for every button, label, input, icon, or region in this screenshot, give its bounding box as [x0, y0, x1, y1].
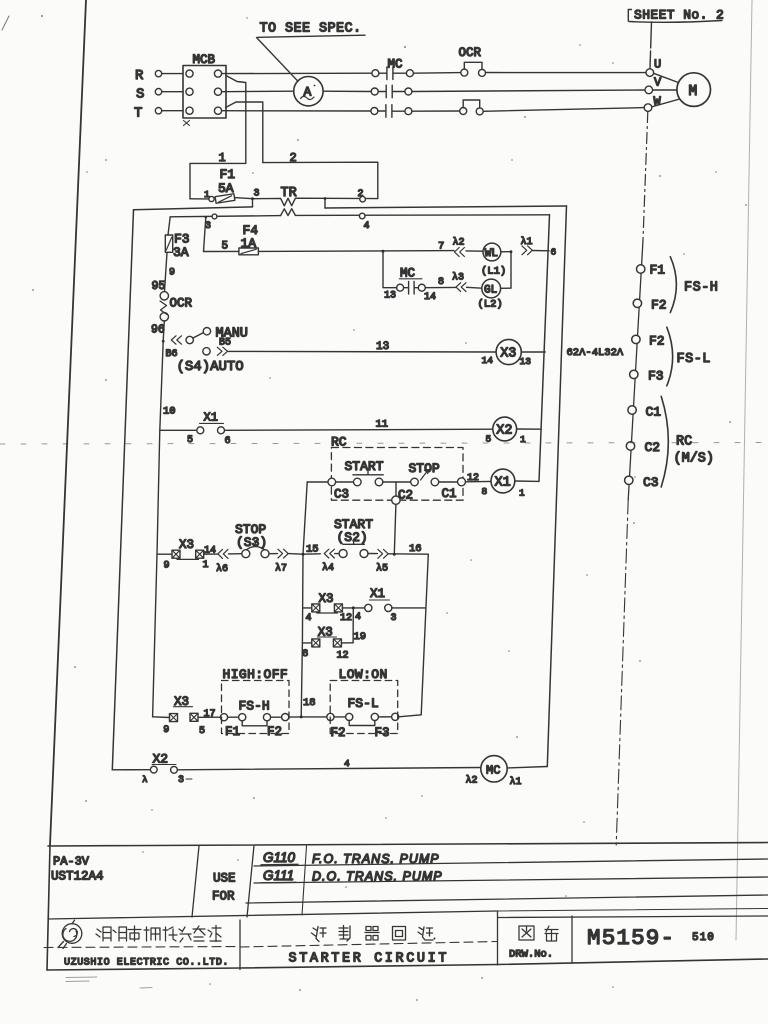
svg-text:F1: F1 [225, 725, 240, 739]
svg-text:λ6: λ6 [216, 563, 228, 575]
svg-text:X1: X1 [495, 476, 511, 491]
contactor MC aux contact 13 14 [384, 267, 436, 304]
wire riser row1 to subrow2 [301, 554, 303, 717]
box LOW:ON dashed [330, 667, 398, 734]
svg-text:C1: C1 [442, 487, 457, 501]
node remote control RC group brace [661, 396, 714, 487]
node period after kanji [434, 938, 436, 940]
text D.O. TRANS. PUMP [312, 870, 443, 884]
node terminal C2 RC junction [392, 482, 413, 504]
svg-text:X3: X3 [179, 538, 194, 552]
svg-text:14: 14 [424, 292, 436, 303]
title block dashed mid rules [44, 942, 497, 948]
svg-text:19: 19 [354, 631, 367, 643]
transformer TR [253, 186, 378, 216]
node float switch FS-H group brace [670, 257, 718, 313]
svg-text:T: T [134, 106, 142, 122]
svg-text:A: A [304, 85, 312, 100]
svg-text:C3: C3 [643, 475, 659, 490]
svg-text:X1: X1 [204, 411, 218, 425]
junction dots [205, 197, 513, 718]
title block dividers upper [48, 846, 768, 970]
text USE FOR [212, 872, 236, 904]
svg-text:5: 5 [222, 241, 229, 253]
wire transformer secondary line [170, 215, 549, 217]
svg-text:15: 15 [306, 544, 319, 556]
motor M [677, 73, 711, 107]
svg-text:λ: λ [142, 774, 148, 785]
svg-text:510: 510 [692, 932, 715, 944]
wire row1 right to corner 16 [389, 543, 429, 555]
node float switch FS-L group brace [667, 327, 711, 386]
fuse F3 3A [165, 217, 189, 260]
svg-text:(S4)AUTO: (S4)AUTO [177, 359, 244, 375]
svg-text:1: 1 [203, 560, 209, 571]
wire R phase OCR to motor U [486, 72, 647, 74]
svg-text:(M/S): (M/S) [674, 452, 715, 467]
wire START to STOP [383, 481, 411, 483]
svg-text:F1: F1 [220, 167, 236, 182]
svg-text:62Λ-4L32Λ: 62Λ-4L32Λ [567, 347, 624, 359]
svg-text:C2: C2 [398, 489, 413, 503]
svg-text:FS-L: FS-L [677, 352, 711, 367]
wire MC aux to GL [425, 286, 482, 289]
node lambda1 connector [521, 236, 533, 255]
svg-text:3A: 3A [173, 245, 189, 260]
svg-text:X3: X3 [319, 592, 334, 606]
svg-text:OCR: OCR [170, 297, 193, 311]
node SHEET No. 2 reference [628, 8, 724, 23]
node TO SEE SPEC callout [257, 22, 366, 82]
svg-text:V: V [654, 76, 662, 90]
svg-text:9: 9 [163, 725, 169, 736]
wire drop to box top right segment [324, 199, 326, 209]
relay OCR overload contact T [460, 100, 484, 115]
svg-text:12: 12 [337, 651, 349, 662]
svg-text:13: 13 [384, 291, 396, 302]
svg-text:4: 4 [306, 613, 312, 624]
switch S4 selector MANU AUTO [166, 327, 248, 376]
svg-text:F.O. TRANS. PUMP: F.O. TRANS. PUMP [312, 852, 440, 866]
node lambda4 connector [322, 549, 334, 574]
wire T phase MC to OCR [412, 110, 460, 112]
svg-text:M: M [689, 84, 698, 100]
node terminal F3 [630, 369, 664, 384]
wire riser subrow2 to subrow3 [353, 608, 366, 643]
svg-text:USE: USE [213, 872, 236, 886]
wire GL riser to lamp line [501, 252, 511, 289]
wire tap 2 from T phase [226, 102, 297, 165]
contact X3 NC pair row1 [157, 538, 216, 572]
switch FS-H float contact [198, 699, 301, 740]
svg-text:D.O. TRANS. PUMP: D.O. TRANS. PUMP [312, 870, 443, 884]
svg-text:96: 96 [151, 324, 165, 337]
svg-text:13: 13 [376, 341, 389, 353]
node terminal C2 [626, 440, 660, 455]
svg-text:X2: X2 [496, 424, 512, 439]
node terminal C1 RC [442, 473, 480, 501]
node terminal 3 secondary [205, 214, 217, 232]
wire control box top edge right segment [325, 206, 567, 208]
contact X1 aux subrow2 [342, 587, 425, 624]
wire MC aux branch drop [383, 251, 397, 288]
svg-text:λ2: λ2 [466, 775, 478, 787]
wire S phase MCB to ammeter [222, 90, 294, 93]
node S phase terminal [136, 87, 162, 103]
svg-text:OCR: OCR [459, 46, 482, 60]
wire WL to rail [501, 251, 549, 252]
fuse F1 5A [190, 167, 260, 203]
wire tap 1 from R phase [219, 76, 246, 166]
node R phase terminal [135, 68, 162, 84]
svg-text:F2: F2 [651, 298, 667, 313]
node terminal C3 RC [328, 478, 349, 501]
wire pilot lamp rung [258, 250, 483, 253]
svg-text:F2: F2 [649, 334, 665, 349]
svg-text:B5: B5 [219, 338, 231, 349]
wire riser X1 rung to row1 [303, 482, 307, 554]
wire MC coil to right rail [507, 767, 547, 769]
svg-text:10: 10 [163, 406, 176, 418]
node lambda6 connector [204, 549, 228, 575]
wire control box top edge left segment [134, 207, 253, 210]
node motor terminal V [645, 76, 662, 94]
wire S phase ammeter to MC [323, 90, 371, 92]
text drawing number kanji 図番 [519, 926, 558, 941]
wire page left frame border [2, 0, 86, 845]
svg-text:(L2): (L2) [478, 299, 503, 311]
wire W to motor [652, 99, 682, 107]
wire rail OCR to selector [163, 321, 164, 341]
text company kanji 渦潮電機株式会社 [96, 926, 221, 943]
wire STOP to C1 [439, 481, 458, 483]
svg-text:6: 6 [551, 247, 557, 258]
svg-text:5: 5 [187, 435, 193, 446]
svg-text:F2: F2 [267, 725, 282, 739]
svg-text:SHEET No. 2: SHEET No. 2 [634, 8, 724, 23]
wire S to MCB [162, 91, 183, 93]
node terminal 4 secondary [359, 213, 369, 232]
fuse F4 1A [204, 223, 259, 255]
svg-text:FOR: FOR [212, 890, 235, 904]
node terminal F2 second [632, 334, 665, 349]
svg-text:FS-H: FS-H [684, 281, 718, 296]
svg-text:STARTER CIRCUIT: STARTER CIRCUIT [289, 952, 450, 967]
wire S phase MC to motor V [412, 90, 645, 92]
svg-text:λ7: λ7 [275, 563, 287, 575]
svg-text:(S2): (S2) [337, 530, 368, 545]
svg-text:M5159-: M5159- [587, 925, 675, 951]
switch STOP RC pushbutton [409, 461, 440, 486]
svg-text:9: 9 [164, 561, 170, 572]
wire rail F3 to OCR [165, 252, 176, 291]
svg-text:MC: MC [486, 764, 500, 778]
wire row1 to junction 15 [289, 553, 321, 556]
wire terminal column line [628, 240, 643, 500]
svg-text:STOP: STOP [409, 461, 440, 476]
svg-text:λ1: λ1 [510, 776, 522, 788]
svg-text:G111: G111 [263, 868, 294, 883]
svg-text:8: 8 [438, 277, 444, 288]
svg-text:5: 5 [199, 726, 205, 737]
svg-text:2: 2 [358, 189, 364, 200]
svg-text:12: 12 [340, 613, 352, 624]
wire T to MCB [162, 110, 183, 112]
wire U to motor [654, 73, 681, 83]
wire fold crease line [0, 443, 768, 445]
junction selector on rail [162, 340, 165, 343]
wire right rail row1 to FS row [421, 554, 428, 715]
relay OCR trip contact [160, 292, 193, 321]
text F.O. TRANS. PUMP [312, 852, 440, 866]
lamp GL (L2) [478, 279, 503, 310]
svg-text:1: 1 [519, 488, 525, 499]
wire G110 underline [261, 863, 298, 866]
node lambda2 connector [453, 237, 465, 257]
wire riser C2 to row1 [394, 504, 396, 554]
node terminal C1 [628, 405, 661, 420]
svg-text:18: 18 [303, 697, 316, 709]
relay box RC dashed [331, 448, 463, 501]
node terminal 2 [358, 189, 366, 202]
relay coil X3 rung 13 [228, 339, 546, 367]
svg-text:X3: X3 [500, 347, 516, 362]
wire bottom rung to MC coil [177, 758, 480, 770]
wire inner return rail right [539, 215, 550, 482]
contactor coil MC [466, 756, 522, 788]
contact X3 pair FS row [153, 695, 216, 737]
node lambda3 connector [452, 272, 466, 292]
text G111 [263, 868, 294, 883]
svg-text:RC: RC [676, 435, 692, 450]
svg-text:(L1): (L1) [481, 266, 506, 278]
contactor MC main contact S [371, 85, 412, 98]
svg-text:F1: F1 [650, 263, 666, 278]
wire G111 underline [261, 881, 296, 884]
contact X3 pair subrow3 [302, 626, 353, 662]
svg-text:DRW.No.: DRW.No. [509, 949, 553, 961]
node terminal F1 [637, 263, 666, 278]
svg-text:1A: 1A [241, 236, 257, 251]
svg-text:G110: G110 [263, 850, 296, 865]
wire T phase MCB to MC [222, 110, 371, 112]
wire V to motor [653, 89, 678, 91]
wire T phase OCR to motor W [483, 108, 644, 112]
svg-text:GL: GL [484, 285, 497, 297]
svg-text:START: START [345, 459, 384, 474]
svg-text:3: 3 [178, 775, 184, 786]
switch STOP S3 pushbutton [229, 522, 270, 558]
contactor MC main contact R [372, 57, 414, 79]
text G110 [263, 850, 296, 865]
svg-text:PA-3V: PA-3V [53, 855, 90, 869]
wire chain line feeder lower [616, 500, 628, 845]
svg-text:14: 14 [482, 355, 494, 366]
relay coil X1 rung [466, 469, 540, 498]
svg-text:LOW:ON: LOW:ON [339, 667, 388, 682]
svg-text:λ5: λ5 [376, 563, 388, 575]
wire R phase MCB to MC [222, 72, 372, 74]
contact X1 aux on X2 rung [160, 411, 231, 448]
svg-text:16: 16 [409, 543, 422, 555]
svg-text:S: S [136, 87, 144, 103]
relay coil X2 rung 11 [225, 417, 542, 445]
relay OCR overload contact R [459, 46, 486, 76]
wire page right frame border [736, 0, 752, 940]
wire control box left edge [112, 210, 133, 770]
svg-text:UST12A4: UST12A4 [51, 870, 104, 884]
switch START S2 pushbutton [334, 517, 373, 558]
lamp WL (L1) [481, 243, 506, 277]
breaker MCB [183, 53, 226, 126]
switch START RC pushbutton [336, 459, 384, 486]
meter A ammeter [294, 77, 323, 106]
svg-text:λ3: λ3 [452, 272, 464, 284]
wire X1 rung left [307, 481, 328, 483]
node lambda5 connector [368, 549, 388, 574]
svg-text:X1: X1 [370, 587, 385, 601]
wire feeder drop from sheet label [650, 22, 652, 69]
svg-text:4: 4 [355, 612, 361, 623]
contactor MC main contact T [371, 105, 412, 118]
svg-text:U: U [654, 58, 661, 72]
svg-text:13: 13 [520, 356, 532, 367]
wire R phase MC to OCR [413, 72, 460, 75]
node T phase terminal [134, 106, 162, 122]
svg-text:11: 11 [376, 419, 389, 431]
svg-text:6: 6 [225, 436, 231, 447]
node 3 drop to box edge [252, 199, 254, 207]
svg-text:WL: WL [485, 248, 498, 260]
svg-text:3: 3 [254, 189, 260, 200]
svg-text:R: R [135, 68, 144, 84]
svg-text:HIGH:OFF: HIGH:OFF [223, 667, 289, 682]
svg-text:9: 9 [169, 268, 175, 279]
svg-text:7: 7 [438, 241, 444, 253]
svg-text:TO SEE SPEC.: TO SEE SPEC. [260, 22, 362, 37]
box HIGH:OFF dashed [222, 667, 290, 734]
contact X3 pair subrow2 [303, 592, 352, 624]
wire F4 branch drop [204, 218, 206, 252]
svg-text:3: 3 [391, 613, 397, 624]
svg-text:MC: MC [388, 57, 403, 71]
switch FS-L float contact [301, 696, 421, 740]
text starter circuit kanji 始動器回路 [312, 926, 434, 942]
title block frame [47, 843, 768, 971]
svg-text:FS-H: FS-H [239, 699, 270, 714]
wire transformer primary loop top [190, 162, 378, 199]
node motor terminal W [644, 95, 661, 112]
svg-text:4: 4 [344, 758, 350, 769]
svg-text:17: 17 [204, 709, 216, 720]
svg-text:C1: C1 [646, 405, 662, 420]
node lambda7 connector [269, 549, 288, 574]
node terminal C3 [625, 475, 659, 490]
wire control box right edge [547, 206, 566, 767]
svg-text:F3: F3 [648, 369, 664, 384]
noise smudges bottom left [66, 977, 152, 988]
node motor terminal U [646, 58, 661, 77]
svg-text:8: 8 [302, 649, 308, 660]
svg-text:FS-L: FS-L [348, 696, 379, 711]
svg-text:λ4: λ4 [322, 562, 334, 574]
wire R to MCB [162, 73, 183, 75]
svg-text:λ2: λ2 [453, 237, 465, 249]
svg-text:RC: RC [331, 435, 347, 450]
svg-text:UZUSHIO ELECTRIC CO..LTD.: UZUSHIO ELECTRIC CO..LTD. [64, 958, 229, 969]
svg-text:4: 4 [364, 221, 370, 232]
svg-text:C3: C3 [334, 488, 349, 502]
contact X2 aux bottom rung [112, 752, 192, 787]
svg-text:8: 8 [482, 486, 488, 497]
logo uzushio stamp [58, 920, 82, 948]
node terminal F2 [633, 298, 666, 313]
wire rail selector to bottom corner [153, 341, 164, 717]
wire chain line motor feeder upper [643, 112, 648, 241]
